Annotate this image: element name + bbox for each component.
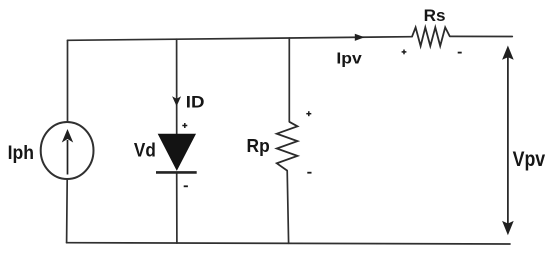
wire diode branch lower — [176, 172, 178, 243]
wire top: Rs right to top-right corner — [450, 35, 513, 37]
wire left vertical lower — [66, 179, 69, 243]
svg-text:Rs: Rs — [424, 6, 446, 25]
diode D1 triangle — [159, 134, 196, 170]
wire Rp branch upper — [288, 38, 290, 122]
arrow Ipv (output current) — [355, 34, 365, 41]
wire left vertical upper — [67, 40, 69, 122]
wire bottom — [67, 243, 510, 244]
svg-text:Iph: Iph — [8, 143, 34, 164]
diode cathode bar — [156, 171, 197, 174]
svg-text:Rp: Rp — [247, 136, 270, 156]
resistor Rp zigzag — [277, 122, 298, 171]
diode minus sign — [184, 185, 188, 187]
voltage arrow Vpv (double-headed) — [502, 46, 514, 236]
svg-text:Vpv: Vpv — [513, 148, 546, 171]
wire Rp branch lower — [287, 171, 288, 244]
svg-text:Ipv: Ipv — [336, 50, 361, 67]
svg-text:Vd: Vd — [134, 140, 156, 161]
Rs plus sign — [402, 50, 407, 55]
svg-text:ID: ID — [186, 93, 205, 112]
Rp minus sign — [307, 172, 311, 174]
resistor Rs zigzag — [412, 27, 450, 46]
current source Iph circle — [41, 122, 94, 179]
arrow ID (diode current) — [172, 96, 181, 106]
diode plus sign — [182, 123, 187, 128]
Rp plus sign — [306, 111, 311, 116]
wire top: node A to Rs left — [68, 37, 413, 41]
current source arrow — [62, 129, 73, 175]
wire diode branch upper — [176, 39, 178, 134]
Rs minus sign — [458, 52, 462, 54]
